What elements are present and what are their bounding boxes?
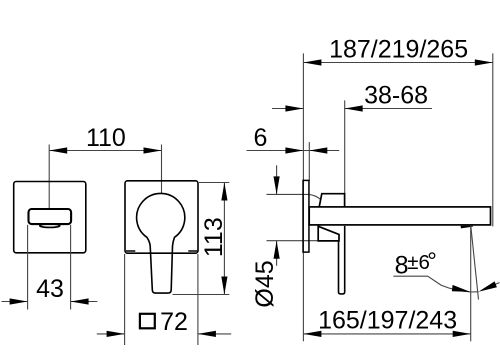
lever pivot wedge side view bbox=[318, 226, 339, 241]
svg-text:38-68: 38-68 bbox=[364, 81, 428, 109]
angle arrow on stream line bbox=[478, 281, 497, 291]
dimension square72 bbox=[97, 254, 231, 345]
svg-text:Ø45: Ø45 bbox=[251, 260, 279, 307]
dimension dia45 bbox=[267, 165, 319, 265]
parting dash right bbox=[188, 250, 197, 252]
arrow 6 left bbox=[285, 147, 303, 153]
dimension 43 bbox=[2, 225, 98, 310]
arrow 38-68 right bbox=[345, 105, 363, 111]
spout side view bbox=[309, 207, 490, 225]
arrow 187 left bbox=[303, 59, 321, 65]
lever handle side view bbox=[339, 226, 345, 294]
square symbol bbox=[140, 314, 155, 329]
svg-text:113: 113 bbox=[200, 217, 228, 257]
angle arc right tail bbox=[494, 283, 500, 285]
svg-text:110: 110 bbox=[86, 124, 126, 152]
arrow 6 right bbox=[309, 147, 327, 153]
arrow dia45 bottom bbox=[274, 241, 280, 259]
svg-text:6: 6 bbox=[253, 124, 267, 152]
svg-text:165/197/243: 165/197/243 bbox=[318, 307, 457, 335]
arrow 187 right bbox=[475, 59, 493, 65]
dimension 165/197/243 bbox=[303, 226, 470, 342]
arrow 43 right bbox=[71, 298, 89, 304]
handle underside ellipse bbox=[40, 224, 60, 227]
arrow 113 down bbox=[221, 277, 227, 295]
angle tip connector bbox=[470, 291, 478, 293]
arrow 43 left bbox=[10, 298, 28, 304]
dimension 110 bbox=[49, 145, 161, 210]
dimension 187/219/265 bbox=[303, 53, 492, 341]
svg-text:43: 43 bbox=[36, 275, 64, 303]
handle front view bbox=[29, 209, 72, 224]
dimension 6 bbox=[247, 142, 340, 181]
arrow 110 right bbox=[144, 147, 162, 153]
escutcheon square plate front view (figure 1) bbox=[14, 182, 86, 253]
arrow 165 right bbox=[453, 331, 471, 337]
dimension 38-68 bbox=[272, 100, 432, 193]
lever keyhole (circle + stem) bbox=[137, 193, 185, 293]
arrow dia45 top bbox=[274, 176, 280, 194]
arrow 38-68 left bbox=[285, 105, 303, 111]
escutcheon square plate front view (figure 2) bbox=[125, 181, 198, 253]
water stream line bbox=[471, 226, 479, 300]
wall plate side view bbox=[303, 180, 309, 252]
svg-text:72: 72 bbox=[160, 308, 188, 336]
svg-text:187/219/265: 187/219/265 bbox=[329, 36, 468, 64]
angle arrow on wall line bbox=[452, 285, 470, 292]
svg-text:°: ° bbox=[427, 248, 437, 275]
arrow 110 left bbox=[49, 147, 67, 153]
parting dash left bbox=[126, 250, 135, 252]
arrow 165 left bbox=[303, 331, 321, 337]
arrow 113 up bbox=[221, 183, 227, 201]
dimension 113 bbox=[173, 183, 230, 295]
aerator outlet wedge bbox=[461, 226, 474, 229]
arrow 72 left bbox=[107, 331, 125, 337]
angle dimension leader bbox=[393, 276, 470, 292]
valve body above spout bbox=[319, 194, 344, 207]
arrow 72 right bbox=[198, 331, 216, 337]
round escutcheon top arc bbox=[310, 195, 321, 200]
